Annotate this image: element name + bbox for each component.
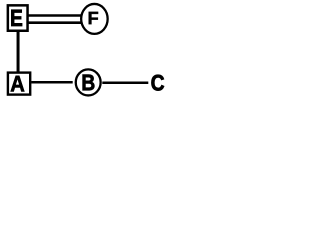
wire: double edge E-F upper line <box>28 14 82 17</box>
label B <box>83 75 95 91</box>
label E <box>11 10 22 26</box>
node F (ellipse) <box>81 4 108 34</box>
node C (plain text label) <box>151 75 164 91</box>
label F <box>89 12 98 24</box>
node B (circle) <box>76 69 101 95</box>
wire: edge E-A vertical <box>17 31 20 72</box>
wire: double edge E-F lower line <box>28 21 82 24</box>
node E (rectangle box) <box>8 5 28 30</box>
node A (rectangle box) <box>8 73 30 95</box>
wire: edge A-B horizontal <box>31 81 72 84</box>
wire: edge B-C horizontal <box>102 82 148 85</box>
label A <box>11 76 25 92</box>
